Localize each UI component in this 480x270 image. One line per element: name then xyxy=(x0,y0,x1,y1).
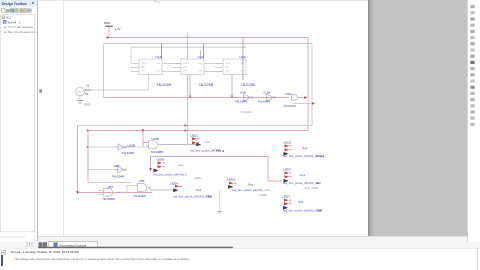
svg-text:74LS04N: 74LS04N xyxy=(240,110,252,114)
node junction FF3 drop xyxy=(231,96,233,98)
tree row 1 xyxy=(2,16,5,19)
toolbar icon help xyxy=(28,9,31,12)
svg-text:LED2: LED2 xyxy=(284,140,292,144)
svg-text:U10B: U10B xyxy=(128,143,136,147)
toolbar icon open xyxy=(6,9,10,12)
splitter dark band xyxy=(38,247,233,249)
wire left red vertical xyxy=(78,126,153,193)
svg-text:5.0V: 5.0V xyxy=(115,27,121,31)
wire V1 to FF1 xyxy=(84,75,148,91)
svg-text:Red: Red xyxy=(248,183,254,187)
svg-text:74LS04N: 74LS04N xyxy=(122,151,135,155)
wire probe net red xyxy=(151,157,283,182)
svg-text:U10A: U10A xyxy=(263,90,271,94)
wire FF1 to FF2 xyxy=(162,64,181,72)
svg-text:V1: V1 xyxy=(86,83,90,87)
svg-text:74LS32N: 74LS32N xyxy=(283,104,296,108)
svg-text:U7B: U7B xyxy=(285,92,291,96)
probe X5 LED2 xyxy=(283,140,325,158)
wire FF3 bottom drop xyxy=(231,75,233,98)
svg-text:red_box_probe_p4(VM): red_box_probe_p4(VM) xyxy=(232,188,263,192)
svg-text:U9B: U9B xyxy=(114,164,120,168)
spreadsheet view xyxy=(0,249,480,270)
right window border xyxy=(477,248,479,270)
wire top red rail xyxy=(88,38,308,183)
ground GND1 xyxy=(77,101,90,107)
probe X4 LED5 xyxy=(228,177,271,191)
wire probe drop xyxy=(150,157,152,169)
wire FF2 bottom drop xyxy=(189,75,191,98)
inverter U10B xyxy=(88,143,148,155)
tree row 2 xyxy=(3,20,6,23)
wire gray stub with ground xyxy=(219,190,221,212)
BOTTOM BARS xyxy=(0,237,480,270)
svg-text:LED6: LED6 xyxy=(157,157,165,161)
wire U5B output to probe X3 xyxy=(148,188,173,191)
cut-off header text at canvas top xyxy=(38,0,368,2)
clock source V1 xyxy=(76,83,92,96)
svg-text:Tecno4 - 1 Sunday, October 1: Tecno4 - 1 Sunday, October 16, 2022, 10:… xyxy=(11,250,80,254)
instruments toolbar icons xyxy=(470,5,475,246)
svg-text:GND: GND xyxy=(84,103,90,107)
svg-text:74LS76N: 74LS76N xyxy=(241,83,256,87)
ground GND2 xyxy=(217,212,221,213)
node junction bottom-left xyxy=(76,191,79,194)
svg-text:_GND: _GND xyxy=(193,176,202,180)
svg-text:Tecno4 - 1: Tecno4 - 1 xyxy=(7,20,21,24)
svg-text:Red: Red xyxy=(298,200,304,204)
wire VCC stub xyxy=(108,27,110,38)
svg-text:LED5: LED5 xyxy=(228,177,236,181)
node arrow crossing B xyxy=(184,129,187,132)
and-gate U5B xyxy=(133,179,147,198)
svg-text:4ms: 4ms xyxy=(178,163,184,167)
node arrow U7B output xyxy=(304,96,307,99)
svg-text:ab dfeu rts mbte aaaurum s: ab dfeu rts mbte aaaurum s xyxy=(4,30,38,34)
and-gate U8A xyxy=(98,185,115,201)
probe X6 LED3 xyxy=(283,167,321,189)
toolbar icon save xyxy=(11,9,15,13)
wire U11B output to probe X1 xyxy=(158,144,196,146)
svg-text:4ms: 4ms xyxy=(300,173,306,177)
wire FF2 to FF3 xyxy=(204,64,223,72)
wire top gray rail xyxy=(78,44,313,126)
or-gate U7B xyxy=(283,92,298,108)
sheet right edge shadow xyxy=(368,0,369,236)
svg-text:SC1: SC1 xyxy=(6,15,12,19)
svg-text:74LS76N: 74LS76N xyxy=(157,83,172,87)
node junction rail tap xyxy=(87,129,89,131)
wire U7B output xyxy=(297,97,305,99)
inverter U9B xyxy=(88,164,126,178)
svg-text:74LS76N: 74LS76N xyxy=(199,83,214,87)
right toolbar separator xyxy=(467,0,469,248)
toolbar icon props xyxy=(24,9,28,13)
svg-text:VM)_q: VM)_q xyxy=(216,149,225,153)
gray workspace right of sheet xyxy=(369,0,467,236)
node arrow probe drop xyxy=(149,168,152,171)
wire FF1 top stubs xyxy=(161,44,163,59)
canvas hscrollbar row xyxy=(38,237,467,242)
svg-text:74LS04N: 74LS04N xyxy=(235,99,248,103)
svg-text:red_box_probe_p4(: red_box_probe_p4( xyxy=(190,149,215,153)
svg-text:U5B: U5B xyxy=(139,179,145,183)
svg-text:LED1: LED1 xyxy=(191,133,199,137)
probe X7 LED7 xyxy=(283,194,322,212)
wire third faint rail xyxy=(131,46,246,48)
flip-flop U1A xyxy=(139,55,172,87)
inverter U10A xyxy=(258,90,276,103)
toolbar icon new xyxy=(1,9,5,13)
node junction at rail start xyxy=(107,36,110,39)
wire FF1 left pins xyxy=(131,47,139,71)
wire branch to U11B xyxy=(142,131,144,147)
wire lower tap xyxy=(293,103,313,105)
svg-text:U9A: U9A xyxy=(240,90,246,94)
svg-text:4ms: 4ms xyxy=(205,140,211,144)
wire FF2 top stubs xyxy=(200,50,202,59)
svg-text:Red: Red xyxy=(302,146,308,150)
svg-text:GND: GND xyxy=(316,208,322,212)
tree border xyxy=(1,15,35,232)
wire U8A out to U5B xyxy=(114,186,137,193)
tab scroll buttons xyxy=(39,242,43,247)
svg-text:74LS08N: 74LS08N xyxy=(151,150,164,154)
svg-text:Red: Red xyxy=(196,188,202,192)
node arrow lower tap xyxy=(312,102,315,105)
sheet left margin border xyxy=(63,0,65,236)
node junction FF2 drop xyxy=(189,96,191,98)
svg-text:.. T4_c: .. T4_c xyxy=(151,0,161,4)
svg-text:1Hz: 1Hz xyxy=(316,181,322,185)
node junction inverter tap xyxy=(87,146,89,148)
node junction branch xyxy=(142,129,145,132)
svg-text:74LS32N: 74LS32N xyxy=(133,194,146,198)
active sheet tab xyxy=(48,242,97,248)
panel splitter grip xyxy=(39,89,42,93)
svg-text:red_box_probe_p4(VM)_1: red_box_probe_p4(VM)_1 xyxy=(153,172,187,176)
svg-text:GND: GND xyxy=(206,194,212,198)
svg-text:74LS08N: 74LS08N xyxy=(102,197,115,201)
wire rail tap to U5B xyxy=(88,182,131,184)
node arrow crossing A xyxy=(184,124,187,127)
wire gray drop to bus xyxy=(103,44,105,98)
LEFT PANEL xyxy=(0,0,38,240)
svg-text:LED7: LED7 xyxy=(283,194,291,198)
spreadsheet left glyph xyxy=(1,255,3,266)
probe X1 LED1 xyxy=(190,133,224,152)
probe X2 LED6 xyxy=(153,157,201,180)
panel bottom borders xyxy=(34,239,36,242)
probe X3 LED4 xyxy=(171,181,212,198)
svg-text:Design Toolbox: Design Toolbox xyxy=(2,2,27,6)
svg-text:This design was checked for el: This design was checked for electrical r… xyxy=(14,257,190,261)
power rail VCC xyxy=(104,21,121,31)
wire main red bus xyxy=(104,97,290,99)
panel right border xyxy=(37,0,39,240)
splitter ticks xyxy=(27,242,32,247)
svg-text:red_box_probe_p4(VM)_: red_box_probe_p4(VM)_ xyxy=(283,181,316,185)
panel body xyxy=(0,0,38,240)
panel title bar xyxy=(0,0,38,7)
svg-text:74LS04N: 74LS04N xyxy=(258,99,271,103)
svg-text:_4ms: _4ms xyxy=(262,188,270,192)
toolbar icon sheet xyxy=(15,9,18,13)
svg-text:74LS04N: 74LS04N xyxy=(112,174,125,178)
svg-text:VCC: VCC xyxy=(104,21,111,25)
close button xyxy=(32,2,34,4)
svg-text:red_box_probe_p4(VM)_: red_box_probe_p4(VM)_ xyxy=(173,194,206,198)
svg-text:5V: 5V xyxy=(85,92,89,96)
inverter U9A xyxy=(235,90,253,103)
svg-text:red_box_probe_p4(VM)_: red_box_probe_p4(VM)_ xyxy=(283,154,316,158)
svg-text:LED3: LED3 xyxy=(284,167,292,171)
svg-text:red_box_probe_p4(VM)_: red_box_probe_p4(VM)_ xyxy=(283,208,316,212)
bottom-right dot icon xyxy=(470,243,473,246)
tab row xyxy=(0,242,480,248)
svg-text:⊥ GND: ⊥ GND xyxy=(257,193,267,197)
svg-text:LED4: LED4 xyxy=(171,181,179,185)
svg-text:U8A: U8A xyxy=(108,185,114,189)
svg-text:binary: binary xyxy=(316,154,325,158)
svg-text:U11B: U11B xyxy=(152,137,159,141)
wire FF3 left pins xyxy=(215,64,223,72)
and-gate U11B xyxy=(143,137,163,154)
wire long vertical from clock chain xyxy=(187,34,189,145)
svg-text:ac 7c b.17 der versiones: ac 7c b.17 der versiones xyxy=(4,25,34,29)
wire V1 gnd stub xyxy=(79,96,81,101)
flip-flop U3A xyxy=(223,55,256,87)
toolbar icon zoom xyxy=(20,9,24,13)
flip-flop U2A xyxy=(181,55,214,87)
svg-text:_4ms_GND: _4ms_GND xyxy=(302,186,318,190)
wire FF2 left pins xyxy=(173,64,181,72)
wire FF3 top stubs xyxy=(242,38,244,80)
